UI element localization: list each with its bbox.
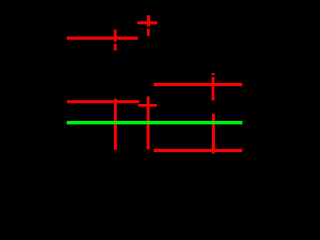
wire W2 upper right rail xyxy=(154,83,243,86)
capacitor C1 lower plate xyxy=(114,44,117,51)
wire W8 bottom rail xyxy=(154,149,243,152)
battery B1 plus polarity marker horizontal stroke xyxy=(139,21,158,24)
wire W5 left vertical branch xyxy=(114,99,117,150)
ground bus green wire xyxy=(67,121,243,125)
capacitor C1 upper plate xyxy=(114,30,117,42)
wire W6 right vertical branch xyxy=(147,97,150,150)
battery B1 plus polarity marker vertical stroke xyxy=(147,15,150,26)
capacitor C2 top plate xyxy=(211,73,215,75)
wire W3 middle rail left xyxy=(67,100,139,103)
wire W4 middle rail jog xyxy=(138,104,157,107)
wire W7 pointed top tip xyxy=(212,114,215,115)
battery B1 negative plate xyxy=(147,29,150,36)
wire W7 far right vertical branch xyxy=(212,114,215,153)
capacitor C2 lead crossing wire W2 xyxy=(212,77,215,101)
wire W1 top rail xyxy=(67,37,138,40)
battery B1 plus polarity marker left taper xyxy=(137,21,139,24)
